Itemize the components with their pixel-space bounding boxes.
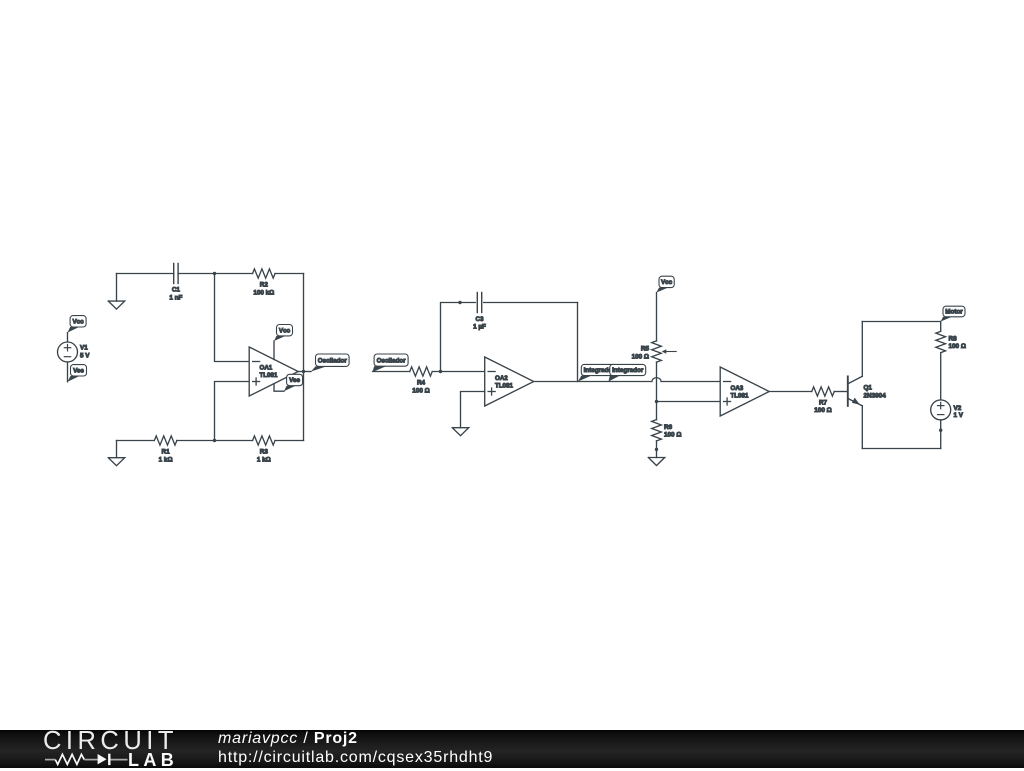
net flag Vcc at V1 [68, 327, 80, 333]
wire bottom net ground to R1 [117, 440, 155, 442]
wire inverting input of OA1 [215, 274, 250, 362]
wire feedback down to output [577, 303, 579, 382]
junction bottom node [213, 439, 216, 442]
svg-text:R7: R7 [819, 400, 828, 407]
junction output node [302, 370, 305, 373]
net flag Vee at OA1 [284, 386, 296, 392]
net flag Vcc at R5 [656, 288, 668, 293]
svg-text:C1: C1 [172, 287, 181, 294]
svg-text:100 Ω: 100 Ω [949, 343, 966, 350]
wire collector to motor node [862, 321, 940, 323]
junction below V2 [939, 429, 942, 432]
footer bar [0, 730, 1024, 768]
net flag Integrador second [609, 376, 620, 382]
wire R5 to divider node [656, 362, 658, 401]
wire R2 to right rail [275, 273, 303, 275]
svg-text:C3: C3 [475, 316, 484, 323]
net flag Vee at V1 [68, 376, 80, 382]
resistor R2 [253, 269, 275, 278]
svg-text:TL081: TL081 [260, 372, 278, 379]
attribution author/project [218, 730, 358, 748]
wire right rail [303, 274, 305, 441]
junction top node [213, 272, 216, 275]
svg-text:100 Ω: 100 Ω [814, 407, 831, 414]
ground G2 stem [116, 441, 118, 458]
svg-text:R1: R1 [162, 449, 171, 456]
svg-text:Vcc: Vcc [661, 279, 673, 286]
wire V2 to bottom corner [940, 420, 942, 449]
wire R4 to OA2 inverting input [432, 371, 484, 373]
wire hop to OA3 inverting input [661, 381, 720, 383]
logo resistor symbol [45, 759, 55, 761]
transistor Q1 base bar [847, 376, 849, 406]
wire C1 to R2 [178, 273, 253, 275]
svg-text:Vcc: Vcc [279, 327, 291, 334]
svg-text:V2: V2 [954, 405, 962, 412]
wire Vcc to R5 [656, 293, 658, 341]
ground G3 [452, 428, 468, 436]
ground G1 [108, 301, 124, 309]
resistor R3 [253, 436, 275, 445]
ground G2 [108, 458, 124, 466]
net flag Vcc at OA1 [274, 336, 286, 341]
wiper arrow of R5 [662, 349, 667, 353]
svg-text:1 kΩ: 1 kΩ [159, 457, 173, 464]
junction at ground [655, 448, 658, 451]
wire OA1 output [298, 371, 311, 373]
wire R1 to R3 [177, 440, 253, 442]
svg-text:Vcc: Vcc [72, 319, 84, 326]
wire OA2 non-inverting input to ground [461, 392, 485, 428]
op-amp OA2 [485, 357, 534, 406]
wire motor node to R8 [940, 322, 942, 332]
voltage source V2 [931, 400, 951, 420]
wire OA1 V+ pin [273, 341, 275, 360]
wire Q1 emitter down [861, 406, 863, 449]
svg-text:Oscilador: Oscilador [377, 357, 407, 364]
svg-text:R3: R3 [260, 449, 269, 456]
resistor R4 [410, 367, 433, 376]
wire OA3 output to R7 [769, 391, 812, 393]
op-amp OA3 [720, 367, 769, 416]
junction on feedback wire [458, 301, 461, 304]
wire Oscilador to R4 [373, 371, 410, 373]
svg-text:Q1: Q1 [864, 385, 873, 392]
transistor Q1 collector lead [848, 376, 863, 384]
svg-text:1 µF: 1 µF [473, 323, 486, 330]
wire top net from ground to C1 [117, 273, 174, 275]
potentiometer R5 [652, 341, 662, 362]
wire divider to R6 [656, 402, 658, 420]
svg-text:TL081: TL081 [731, 392, 749, 399]
svg-text:100 Ω: 100 Ω [664, 432, 681, 439]
svg-text:R2: R2 [260, 281, 269, 288]
svg-text:2N3904: 2N3904 [864, 393, 887, 400]
svg-text:100 Ω: 100 Ω [412, 388, 429, 395]
wire C3 to feedback corner [484, 302, 578, 304]
logo diode symbol [98, 754, 107, 764]
svg-text:1 V: 1 V [954, 412, 964, 419]
wire bottom return [862, 448, 940, 450]
wire feedback up [441, 303, 476, 372]
attribution url [218, 749, 493, 767]
wire OA1 V- pin [274, 384, 284, 391]
wire V1 to Vee flag [67, 362, 69, 382]
wire V1 to Vcc flag [67, 333, 69, 343]
svg-text:1 kΩ: 1 kΩ [257, 457, 271, 464]
voltage source V1 [58, 342, 78, 362]
wire hop over divider [652, 378, 661, 382]
wire R3 to right rail [275, 440, 303, 442]
net flag Motor [941, 317, 952, 322]
net flag Oscilador output [311, 366, 327, 371]
svg-text:R6: R6 [664, 424, 673, 431]
junction divider node [655, 400, 658, 403]
ground G4 [648, 458, 664, 466]
ground G1 stem [116, 274, 118, 302]
svg-text:1 nF: 1 nF [169, 294, 182, 301]
resistor R7 [812, 387, 835, 396]
svg-text:TL081: TL081 [495, 382, 513, 389]
CircuitLab logo text [43, 727, 178, 756]
svg-text:R4: R4 [417, 380, 426, 387]
svg-text:100 kΩ: 100 kΩ [253, 289, 274, 296]
svg-text:Integrador: Integrador [612, 367, 644, 374]
svg-text:Vee: Vee [289, 377, 300, 384]
wire non-inverting input of OA1 [215, 382, 250, 441]
transistor Q1 emitter lead [848, 398, 863, 405]
svg-text:OA1: OA1 [260, 365, 273, 372]
wire OA2 output to hop [534, 381, 652, 383]
svg-text:R5: R5 [641, 346, 650, 353]
net flag Integrador first [578, 376, 591, 382]
net flag Oscilador input [373, 366, 387, 372]
svg-text:OA2: OA2 [495, 375, 508, 382]
wire R7 to Q1 base [834, 391, 848, 393]
logo LAB text [128, 750, 178, 771]
junction feedback tap [439, 370, 442, 373]
resistor R6 [652, 420, 662, 441]
capacitor C3 [476, 293, 478, 313]
svg-text:V1: V1 [80, 345, 88, 352]
op-amp OA1 [249, 347, 298, 396]
svg-text:5 V: 5 V [80, 353, 90, 360]
resistor R1 [154, 436, 177, 445]
wire R8 to V2 [940, 353, 942, 401]
wire Q1 collector up [861, 322, 863, 377]
wire R6 to ground [656, 441, 658, 458]
capacitor C1 [173, 264, 175, 284]
svg-text:Oscilador: Oscilador [318, 357, 348, 364]
resistor R8 [936, 331, 946, 352]
svg-text:100 Ω: 100 Ω [632, 353, 649, 360]
svg-text:OA3: OA3 [731, 385, 744, 392]
svg-text:R8: R8 [949, 335, 958, 342]
svg-text:Vee: Vee [73, 368, 84, 375]
wire divider to OA3 non-inverting input [657, 401, 721, 403]
svg-text:Motor: Motor [945, 309, 963, 316]
